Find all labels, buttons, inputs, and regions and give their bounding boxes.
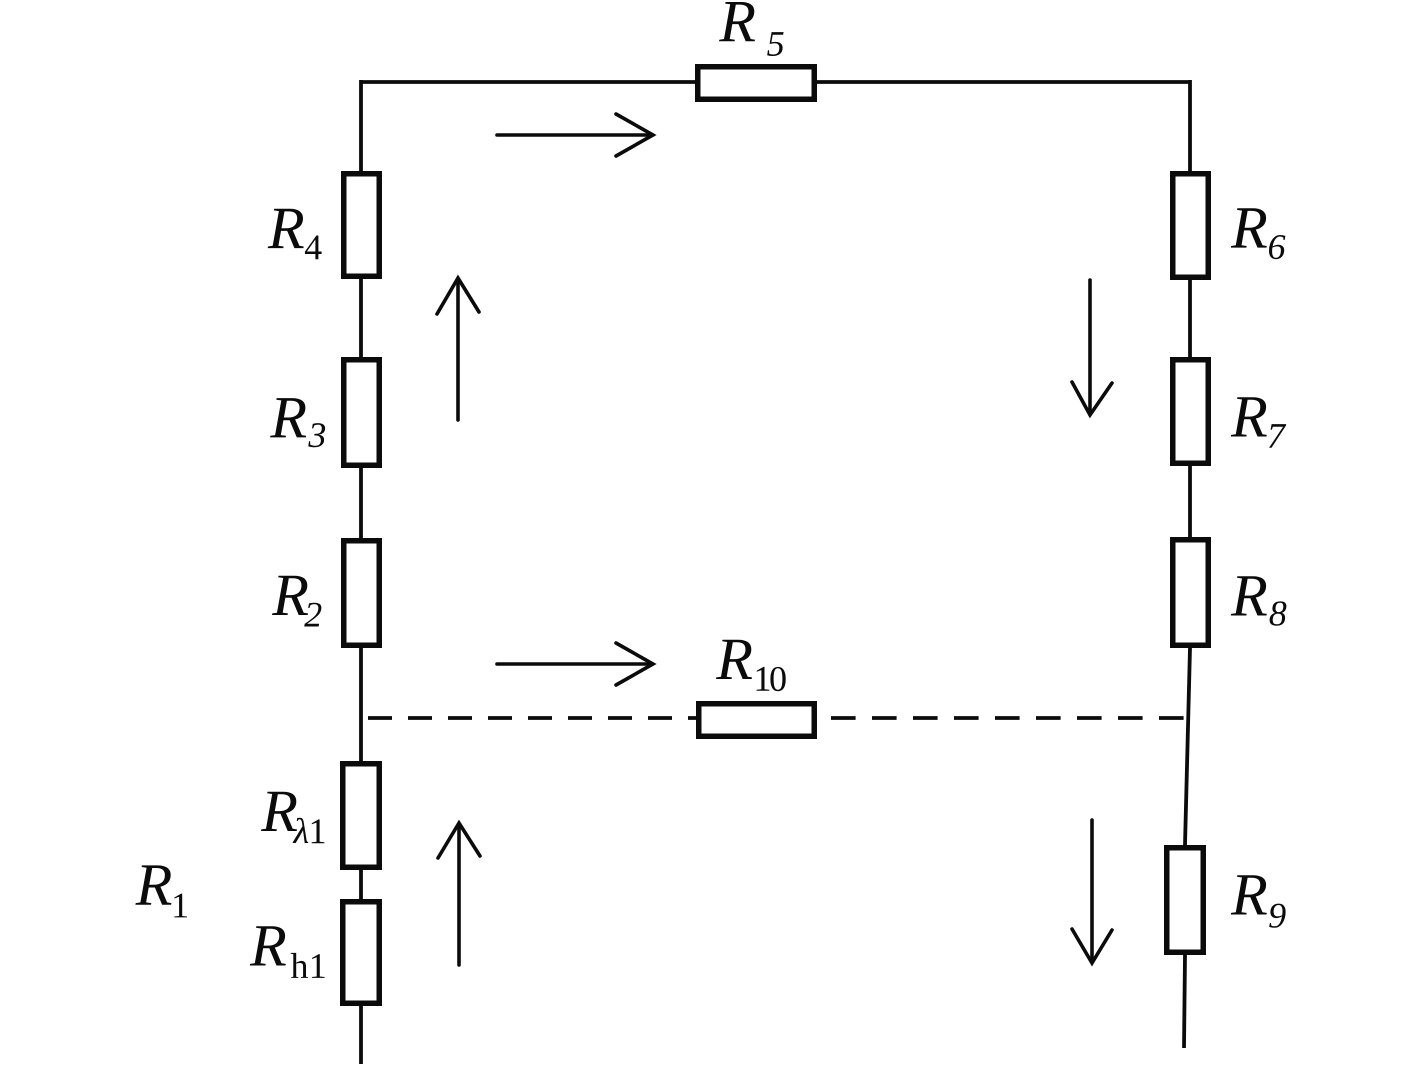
wire left between R4 and R3 (359, 279, 363, 357)
label R9 (1231, 875, 1286, 928)
label R10 (716, 640, 786, 692)
label R5 (719, 2, 784, 56)
label R3 (270, 398, 325, 447)
label R6 (1231, 208, 1286, 259)
label Rh1 (250, 926, 325, 978)
wire left between R3 and R2 (359, 468, 363, 538)
wire top right horizontal (817, 80, 1190, 84)
wire right between R7 and R8 (1188, 466, 1192, 537)
resistor Rh1 (343, 902, 380, 1004)
resistor R6 (1173, 174, 1209, 278)
label R4 (268, 209, 322, 259)
resistor R2 (344, 541, 380, 646)
resistor R10 (699, 704, 815, 737)
resistor Rλ1 (343, 764, 380, 868)
wire right between R6 and R7 (1188, 280, 1192, 357)
resistor R8 (1173, 540, 1209, 646)
wire right between R8 and R9 (1185, 648, 1190, 845)
resistor R4 (344, 174, 380, 277)
resistor R7 (1173, 360, 1209, 464)
resistor R5 (698, 67, 815, 100)
label R1 (135, 865, 187, 917)
resistor R3 (344, 360, 380, 466)
wire right bottom stub (1184, 955, 1185, 1048)
arrow left lower (up) (457, 827, 461, 965)
arrow right upper (down) (1088, 280, 1092, 411)
wire right vertical top (1188, 80, 1192, 171)
label R8 (1231, 576, 1287, 626)
label R7 (1231, 397, 1286, 448)
wire left between R2 and Rλ1 (359, 648, 363, 761)
arrow current top (right) (497, 133, 650, 137)
wire left between Rλ1 and Rh1 (359, 870, 363, 899)
resistor R9 (1167, 848, 1204, 953)
arrow current middle (right) (497, 662, 650, 666)
wire dashed right segment (817, 716, 1186, 720)
wire top left horizontal (361, 80, 695, 84)
label R2 (272, 576, 321, 627)
wire left vertical top (359, 80, 363, 171)
arrow right lower (down) (1090, 820, 1094, 959)
wire dashed left segment (361, 716, 696, 720)
wire left bottom stub (359, 1006, 363, 1064)
arrow left upper (up) (456, 282, 460, 420)
label Rλ1 (261, 792, 324, 844)
